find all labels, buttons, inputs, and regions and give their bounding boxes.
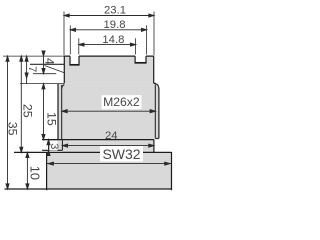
dim 19.8 line	[70, 29, 146, 31]
flange 3mm fill	[49, 139, 154, 150]
hex top edge	[14, 151, 172, 153]
dim 14.8 line	[79, 44, 136, 46]
flange top edge	[42, 139, 154, 141]
flange side edges	[49, 140, 154, 153]
dimension lines	[3, 12, 172, 190]
dim 14.8 ext lines	[79, 38, 136, 54]
hex bottom edge	[5, 188, 172, 190]
svg-text:35: 35	[5, 122, 19, 136]
dimension texts	[5, 4, 140, 180]
part body fills	[47, 50, 172, 189]
svg-text:24: 24	[105, 130, 118, 142]
thread runout arcs	[155, 84, 159, 89]
top ext line left	[3, 55, 64, 57]
slot-bottom ext line left	[30, 63, 64, 65]
white text masks	[49, 95, 143, 161]
right slot edges	[135, 56, 146, 63]
dim 19.8 ext lines	[70, 25, 146, 54]
M26x2 mask	[102, 95, 142, 109]
svg-text:3: 3	[48, 143, 60, 149]
dim 10 line	[26, 152, 28, 189]
dim 4 lower ext line	[33, 73, 56, 75]
part outline	[5, 56, 172, 190]
svg-text:M26x2: M26x2	[103, 95, 140, 109]
dim 25 line	[20, 56, 22, 152]
thread major lines	[58, 84, 159, 140]
dia24 extension left	[61, 140, 63, 151]
cap top edge segments	[64, 55, 153, 57]
thread end tick	[155, 137, 159, 139]
thread minor lines	[62, 85, 156, 140]
thread top face right	[154, 82, 156, 84]
svg-text:23.1: 23.1	[104, 4, 126, 16]
svg-text:10: 10	[27, 166, 42, 180]
dim 35 line	[7, 56, 9, 189]
thread M26 body fill	[58, 83, 159, 139]
svg-text:SW32: SW32	[102, 146, 140, 162]
cap Ø23.1 section fill	[64, 56, 153, 83]
hex side edges	[47, 152, 172, 190]
oblique ext line	[45, 66, 65, 73]
hex SW32 section fill	[47, 152, 172, 189]
dim 4 line	[43, 51, 45, 74]
dim 15 line	[43, 84, 45, 140]
svg-text:15: 15	[45, 112, 59, 126]
SW32 mask	[100, 146, 143, 162]
dim 23.1 line	[64, 15, 154, 17]
cap side edges	[64, 56, 153, 83]
left slot cutout	[70, 50, 79, 65]
dim 7 line	[26, 56, 28, 83]
svg-text:7: 7	[26, 66, 38, 72]
dim 3 line	[48, 140, 50, 156]
right slot cutout	[135, 50, 146, 63]
disc Ø24 fill	[62, 150, 153, 152]
left slot edges	[70, 56, 79, 65]
svg-text:14.8: 14.8	[102, 34, 124, 46]
svg-text:4: 4	[42, 58, 56, 65]
M26x2 dim line	[62, 110, 155, 112]
flange bottom edge	[42, 149, 62, 151]
svg-text:25: 25	[20, 104, 34, 118]
dim SW32 line	[47, 163, 172, 165]
svg-text:19.8: 19.8	[104, 19, 126, 31]
dim 24 line	[62, 145, 153, 147]
thread face ext line (7/15)	[20, 83, 64, 85]
dim 23.1 ext lines	[64, 12, 154, 56]
3 mask	[49, 141, 57, 151]
